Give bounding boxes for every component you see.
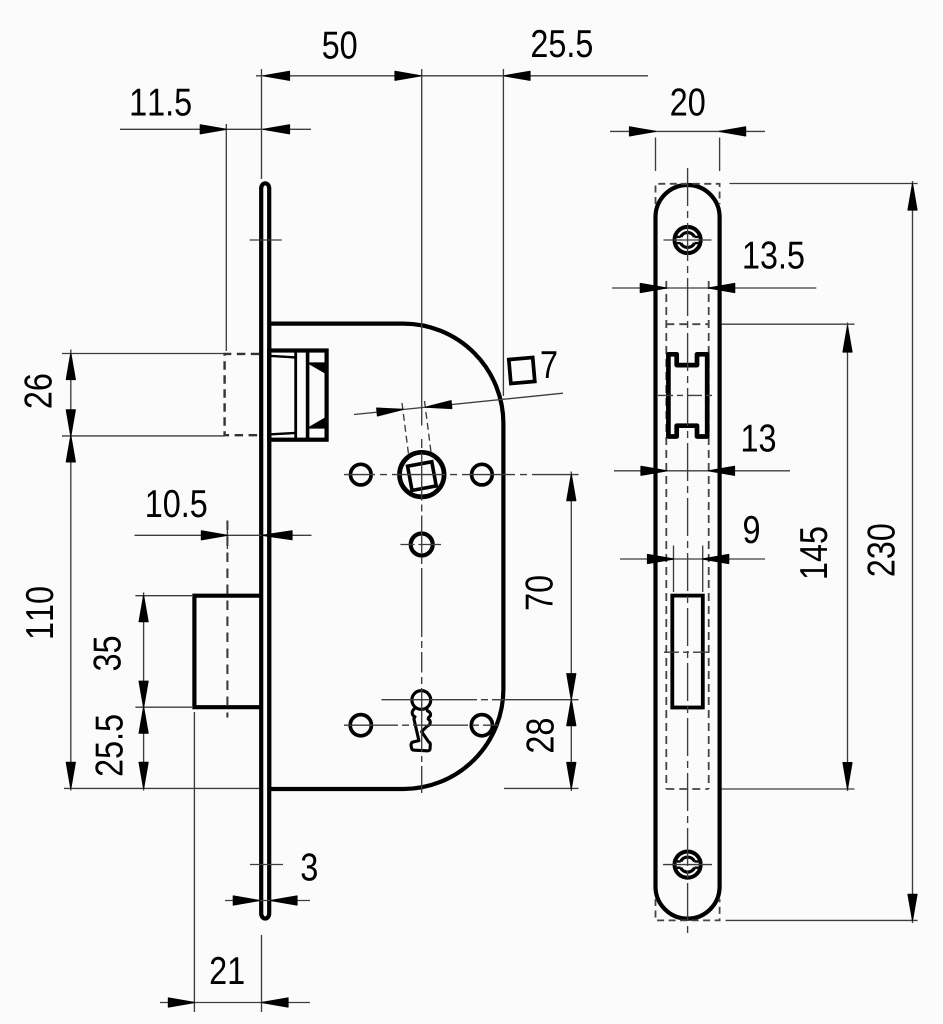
dimension 50 bbox=[256, 31, 648, 80]
dimension 9 bbox=[620, 516, 765, 564]
extension lines 9 bbox=[673, 546, 675, 593]
middle hole bbox=[411, 534, 433, 556]
vertical centerline right view bbox=[687, 168, 689, 936]
faceplate front (rounded ends) bbox=[656, 185, 720, 919]
spindle follower circle bbox=[400, 452, 445, 497]
dimension 20 bbox=[610, 88, 765, 136]
extension lines 230 bbox=[730, 183, 918, 185]
deadbolt bbox=[194, 596, 261, 708]
screw hole bottom bbox=[675, 852, 701, 878]
tick top screw bbox=[664, 239, 712, 241]
horizontal centerline middle hole bbox=[400, 544, 441, 546]
vertical centerline through spindle/keyhole bbox=[421, 69, 423, 793]
keyhole circle bbox=[412, 691, 431, 710]
spindle square hole bbox=[408, 462, 437, 491]
hidden lock case outline (dashed) bbox=[666, 281, 708, 789]
extension lines 70/28 right bbox=[504, 787, 579, 789]
dimension 21 bbox=[160, 957, 310, 1007]
dimension 70/28 line bbox=[525, 472, 576, 792]
screw-height tick top on strip bbox=[250, 239, 282, 241]
dimension 35/25.5 line bbox=[93, 593, 148, 791]
lock body (rounded case) bbox=[269, 324, 503, 789]
extension line body right edge top bbox=[502, 69, 504, 396]
latch window (H shaped) bbox=[668, 354, 707, 436]
screw post hole lower-left bbox=[350, 715, 371, 736]
dimension 26/110 line bbox=[24, 350, 75, 791]
tick bottom screw bbox=[663, 864, 712, 866]
faceplate strip (edge view) bbox=[261, 183, 269, 918]
screw post hole upper-right bbox=[472, 464, 493, 485]
square symbol 7 annotation bbox=[509, 351, 557, 383]
dimension 13.5 bbox=[612, 241, 816, 292]
screw hole top bbox=[675, 227, 701, 253]
horizontal centerline upper holes bbox=[344, 474, 579, 476]
dimension 13 bbox=[614, 424, 790, 475]
extension lines 26/110 left bbox=[62, 353, 225, 355]
screw-height tick bottom on strip bbox=[250, 864, 283, 866]
latch bolt assembly bbox=[269, 351, 326, 440]
dashed square-corner option bottom bbox=[656, 899, 720, 920]
dimension 11.5 bbox=[120, 89, 311, 134]
dimension 230 bbox=[867, 181, 917, 923]
tick deadbolt window center bbox=[664, 651, 710, 653]
deadbolt window bbox=[672, 596, 703, 708]
dimension 3 bbox=[225, 853, 317, 905]
tick latch window center bbox=[658, 394, 716, 396]
extension lines 145 bbox=[722, 323, 855, 325]
extension line faceplate top bbox=[261, 69, 263, 179]
screw post hole upper-left bbox=[351, 464, 372, 485]
latch extended position (dashed) bbox=[225, 354, 260, 435]
latch bevel wedges bbox=[308, 363, 327, 374]
deadbolt dashed centerline bbox=[226, 521, 228, 718]
extension line latch front (11.5) bbox=[225, 124, 227, 351]
extension line deadbolt left edge down (21) bbox=[193, 712, 195, 1012]
dimension 145 bbox=[800, 323, 852, 792]
dimension 25.5 top bbox=[504, 30, 592, 81]
horizontal centerline keyhole bbox=[382, 699, 579, 701]
extension lines 20 bbox=[655, 138, 657, 172]
screw post hole lower-right bbox=[471, 715, 492, 736]
dimension square 7 (tilted) bbox=[354, 393, 563, 458]
horizontal centerline lower holes bbox=[344, 724, 498, 726]
dashed square-corner option top bbox=[656, 184, 720, 204]
keyhole bit profile bbox=[411, 707, 431, 750]
extension line strip bottom (21/3) bbox=[261, 935, 263, 1012]
extension lines 35/25.5 bbox=[135, 595, 192, 597]
dimension 10.5 bbox=[135, 490, 312, 549]
